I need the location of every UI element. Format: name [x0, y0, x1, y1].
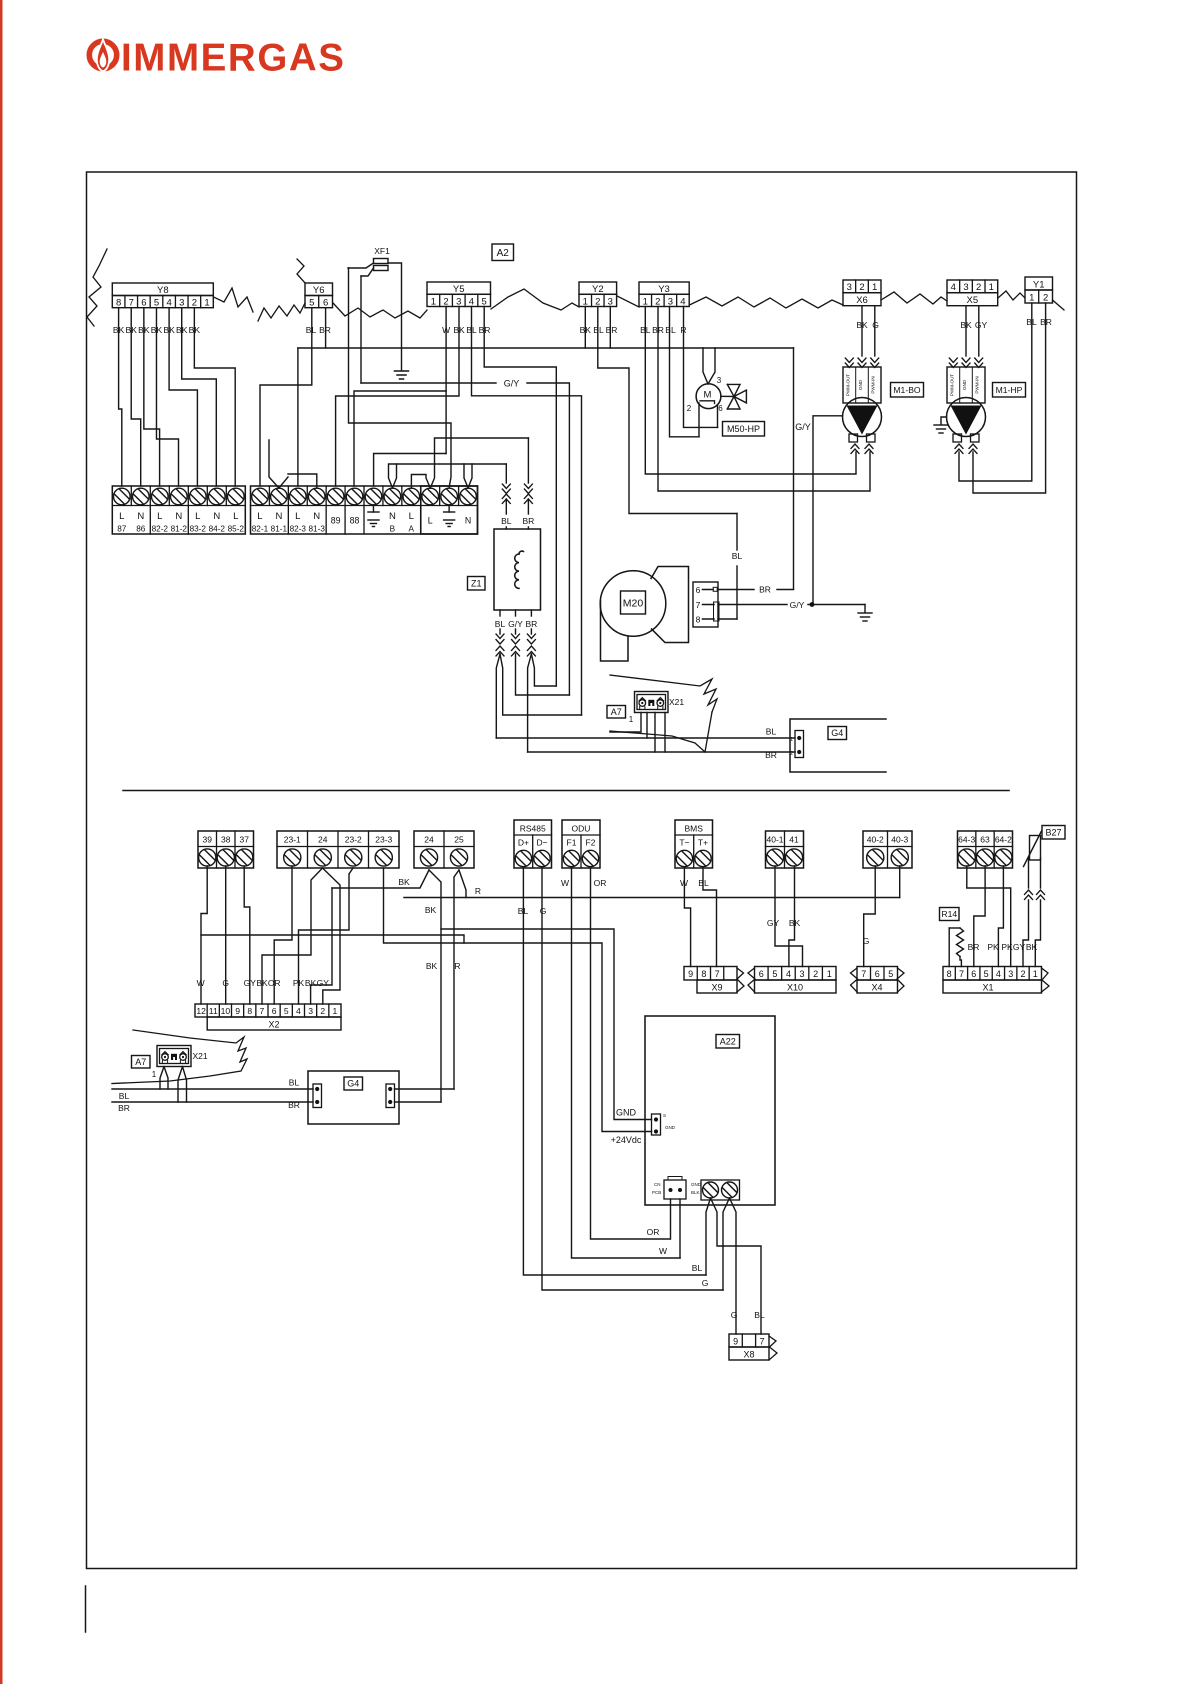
label A7 (bottom) [132, 1056, 151, 1069]
svg-text:A7: A7 [611, 707, 622, 717]
wire 40-3 R from long run [899, 866, 901, 898]
tear squiggle between Y5 and Y2 [491, 289, 579, 310]
svg-text:PWM-IN: PWM-IN [975, 376, 980, 393]
svg-text:L: L [428, 516, 433, 526]
svg-text:63: 63 [980, 835, 990, 845]
wire X5 pin2 to pump HP [978, 306, 980, 356]
wire to earth terminal [374, 454, 447, 487]
svg-text:3: 3 [963, 282, 968, 293]
svg-text:3: 3 [1008, 969, 1013, 979]
svg-text:6: 6 [971, 969, 976, 979]
svg-text:G/Y: G/Y [790, 600, 805, 610]
ground at pump M1-HP [941, 417, 947, 424]
svg-text:BR: BR [522, 516, 534, 526]
wire Y2 pin2 BL to fan row8 route [598, 307, 737, 514]
svg-text:OR: OR [647, 1227, 660, 1237]
svg-text:BR: BR [606, 325, 618, 335]
svg-text:IMMERGAS: IMMERGAS [121, 37, 346, 80]
A22 GND connector [652, 1114, 661, 1135]
svg-text:4: 4 [951, 282, 956, 293]
label M50-HP [723, 422, 765, 437]
terminal strip 39 38 37 [198, 831, 254, 868]
IMMERGAS logo [89, 37, 345, 80]
svg-text:BK: BK [305, 978, 317, 988]
wire RS485 D+ BL run [523, 868, 706, 1275]
svg-text:81-1: 81-1 [271, 525, 288, 534]
svg-text:24: 24 [424, 835, 434, 845]
wire Y5 pin4 BL right to bundle [472, 307, 582, 716]
svg-text:N: N [137, 511, 144, 522]
svg-text:BLK: BLK [691, 1190, 700, 1195]
svg-text:3: 3 [456, 296, 461, 307]
wire 24 GY to X2 pin2 [323, 868, 341, 1004]
wire A22 pin OR [670, 1199, 672, 1239]
svg-text:Y6: Y6 [313, 285, 325, 296]
svg-text:BL: BL [119, 1091, 130, 1101]
svg-text:X8: X8 [743, 1350, 754, 1360]
svg-text:BR: BR [288, 1100, 300, 1110]
pump M1-HP connector [947, 367, 985, 403]
svg-text:BL: BL [518, 906, 529, 916]
svg-text:64-3: 64-3 [958, 835, 975, 845]
wire 63 to X1 pin6 [974, 866, 985, 967]
svg-text:PK: PK [987, 942, 999, 952]
svg-text:X5: X5 [966, 295, 978, 306]
svg-text:2: 2 [790, 751, 793, 757]
wire 38 G to X2 pin10 [225, 866, 227, 1004]
svg-text:W: W [197, 978, 205, 988]
svg-text:BK: BK [398, 877, 410, 887]
terminal strip 40-2 40-3 [863, 831, 912, 868]
label M1-HP [993, 383, 1026, 398]
svg-text:BL: BL [692, 1263, 703, 1273]
wire pump M1-HP to Y1 pin2 [973, 303, 1046, 493]
label B27 [1042, 826, 1065, 840]
wire Y3 pin1 BL to pump M1-BO [645, 307, 856, 475]
svg-text:6: 6 [141, 298, 146, 309]
svg-text:89: 89 [331, 516, 341, 526]
svg-text:BK: BK [256, 978, 268, 988]
label A22 [716, 1035, 740, 1049]
svg-text:2: 2 [1021, 969, 1026, 979]
svg-text:4: 4 [996, 969, 1001, 979]
sensor B27 thermistor [1030, 836, 1041, 861]
svg-text:Y8: Y8 [157, 285, 169, 296]
wire XF1 to earth terminal GND2 [349, 268, 452, 487]
svg-text:GY: GY [975, 320, 988, 330]
svg-text:Y1: Y1 [1033, 279, 1045, 290]
wire A22 left screw branches [706, 1198, 711, 1275]
strip2 label group dividers [287, 506, 289, 535]
svg-text:PK: PK [293, 978, 305, 988]
connector X10 [755, 967, 837, 981]
svg-text:BL: BL [766, 727, 777, 737]
tear squiggles X4 edges [851, 968, 858, 992]
wire X5 pin3 to pump HP [965, 306, 967, 356]
svg-text:2: 2 [976, 282, 981, 293]
svg-text:2: 2 [320, 1006, 325, 1016]
svg-text:5: 5 [154, 298, 159, 309]
svg-text:B27: B27 [1045, 827, 1061, 837]
svg-text:PWM-OUT: PWM-OUT [949, 374, 954, 397]
svg-text:5: 5 [284, 1006, 289, 1016]
terminal strip RS485 [514, 820, 552, 868]
tear diag between Y2 and Y3 [617, 296, 639, 307]
fan connector 6 7 8 [693, 582, 718, 627]
wire ODU F1 W run [572, 868, 681, 1258]
connector X21 (bottom) [157, 1046, 191, 1067]
svg-text:39: 39 [203, 835, 213, 845]
cable joint arrows above Z1 left [502, 484, 510, 489]
svg-text:F1: F1 [567, 838, 577, 848]
pump M1-HP wire-end arrows [949, 358, 957, 363]
svg-text:G/Y: G/Y [504, 379, 520, 389]
wire fan pin7 G/Y to junction and ground [718, 604, 787, 606]
connector Y5 [427, 282, 491, 294]
svg-text:8: 8 [701, 969, 706, 979]
label M1-BO [891, 383, 924, 398]
svg-text:3: 3 [717, 376, 722, 385]
svg-text:1: 1 [790, 737, 793, 743]
3-way valve symbol [727, 384, 740, 396]
terminal strip ODU [562, 820, 600, 868]
long feed wire from W junction [201, 935, 464, 943]
controller G4 (bottom) [308, 1071, 399, 1124]
svg-text:R14: R14 [941, 909, 957, 919]
svg-text:23-3: 23-3 [375, 835, 392, 845]
svg-text:R: R [475, 886, 481, 896]
wire Y3 pin3 BL to valve pin2 [670, 307, 700, 437]
connector X21 (top) [635, 692, 669, 713]
svg-text:N: N [275, 511, 282, 522]
terminal strip 24 25 [414, 831, 474, 868]
A22 bottom small connector [664, 1180, 686, 1199]
svg-text:2: 2 [1043, 292, 1048, 303]
svg-text:L: L [409, 511, 414, 522]
connector Y2 [579, 282, 617, 294]
svg-text:M50-HP: M50-HP [727, 424, 760, 434]
tear squiggle right of X9 [737, 968, 744, 992]
svg-text:88: 88 [350, 516, 360, 526]
svg-text:OR: OR [268, 978, 281, 988]
wire fan pin6 BR to riser [713, 587, 717, 591]
drop wire into terminal N (last) [464, 464, 468, 488]
svg-text:5: 5 [984, 969, 989, 979]
label Z1 [468, 577, 486, 591]
X21 pin wires [610, 713, 641, 733]
tear diag right of Y1 [1053, 300, 1065, 310]
tear squiggle between Y3 and X6 [690, 297, 844, 308]
svg-text:BR: BR [765, 750, 777, 760]
G/Y wire from pump M1-BO case to junction [813, 416, 843, 605]
ground symbol under XF1 [395, 370, 409, 372]
svg-text:8: 8 [696, 615, 701, 625]
wire 39 W to X2 pin12 [201, 866, 207, 1004]
bridge wire L-A to L [411, 475, 430, 489]
svg-text:2: 2 [859, 282, 864, 293]
svg-text:82-2: 82-2 [152, 525, 169, 534]
wire Y6 pin5 BL to terminal 82-1 [260, 308, 312, 486]
svg-text:GND: GND [858, 379, 863, 390]
section separator line [123, 790, 1009, 792]
svg-text:40-2: 40-2 [867, 835, 884, 845]
svg-text:10: 10 [221, 1006, 231, 1016]
wire to terminal 82-3 from long horizontal [297, 348, 299, 486]
svg-text:L: L [233, 511, 238, 522]
svg-text:23-1: 23-1 [284, 835, 301, 845]
tear squiggle right of X8 [769, 1336, 777, 1360]
svg-text:Y2: Y2 [592, 284, 604, 295]
connector X2 [195, 1004, 341, 1017]
svg-text:1: 1 [1033, 969, 1038, 979]
svg-text:2: 2 [687, 404, 692, 413]
svg-text:OR: OR [594, 878, 607, 888]
wire 37 GY to X2 pin8 [244, 866, 250, 1004]
connector Y8 [112, 283, 213, 296]
svg-text:3: 3 [308, 1006, 313, 1016]
svg-text:2: 2 [443, 296, 448, 307]
terminal strip 40-1 41 [766, 831, 804, 868]
svg-text:G/Y: G/Y [508, 619, 523, 629]
connector X1 [943, 967, 1042, 981]
svg-text:G: G [731, 1310, 738, 1320]
svg-text:6: 6 [759, 969, 764, 979]
svg-text:PCB: PCB [652, 1190, 661, 1195]
svg-text:86: 86 [136, 525, 146, 534]
Z1 G/Y wire down to bundle [516, 654, 570, 695]
wire 24 BK to X2 pin7 [262, 868, 323, 1004]
pump M1-BO wire-end arrows [845, 358, 853, 363]
svg-text:4: 4 [166, 298, 171, 309]
svg-text:4: 4 [469, 296, 474, 307]
svg-text:F2: F2 [586, 838, 596, 848]
svg-text:BK: BK [425, 905, 437, 915]
svg-text:A: A [409, 525, 415, 534]
B27 wires with joint arrows [1028, 858, 1030, 888]
wire BR to G4 (top) [528, 751, 795, 753]
svg-text:T+: T+ [698, 838, 708, 848]
svg-text:Z1: Z1 [471, 578, 482, 588]
svg-text:BL: BL [501, 516, 512, 526]
svg-text:64-2: 64-2 [995, 835, 1012, 845]
connector X8 [729, 1334, 769, 1347]
svg-text:M20: M20 [623, 597, 644, 609]
svg-text:X4: X4 [871, 983, 882, 993]
svg-text:D−: D− [536, 838, 547, 848]
torn-page outline around X21 bottom [112, 1030, 247, 1084]
svg-text:1: 1 [827, 969, 832, 979]
svg-text:6: 6 [718, 404, 723, 413]
wire A22 pin W [679, 1199, 681, 1258]
svg-text:N: N [313, 511, 320, 522]
svg-text:X2: X2 [268, 1020, 279, 1030]
svg-text:1: 1 [431, 296, 436, 307]
svg-text:BMS: BMS [684, 824, 703, 834]
hook above Y6 [297, 259, 305, 283]
controller G4 (top) [790, 719, 886, 772]
wire BL to G4 bottom [112, 1088, 313, 1090]
pump M1-BO connector [843, 367, 881, 403]
svg-text:2: 2 [813, 969, 818, 979]
Z1 BL wire pair down [496, 654, 500, 738]
G/Y wire from XF1 to bundle [360, 276, 362, 383]
svg-text:GND: GND [665, 1125, 676, 1130]
resistor R14 [949, 927, 960, 929]
svg-text:BK: BK [426, 961, 438, 971]
svg-text:PWM-IN: PWM-IN [871, 376, 876, 393]
connector Y1 [1025, 277, 1053, 290]
svg-text:1: 1 [583, 296, 588, 307]
cable joint arrows above Z1 right [524, 484, 532, 489]
svg-text:N: N [213, 511, 220, 522]
wire h-feed into strip cell L to Z1 right arrow [430, 438, 528, 488]
svg-text:GY: GY [1013, 942, 1026, 952]
valve pin 2 wire [698, 403, 700, 437]
wire Y5 pin3 BK to terminal 89 [336, 307, 459, 487]
wire V into valve motor top [703, 348, 708, 384]
svg-text:BL: BL [665, 325, 676, 335]
ground symbol right of fan [864, 605, 866, 613]
tear squiggle before Y6 [258, 303, 305, 321]
svg-text:12: 12 [196, 1006, 206, 1016]
svg-text:L: L [195, 511, 200, 522]
svg-text:X10: X10 [787, 983, 803, 993]
svg-text:3: 3 [179, 298, 184, 309]
wire BL to G4 (top) [496, 737, 795, 739]
svg-text:1: 1 [989, 282, 994, 293]
connector X4 [857, 967, 898, 981]
svg-text:B: B [390, 525, 396, 534]
tear squiggle right of Y8 [214, 288, 254, 312]
svg-text:6: 6 [696, 585, 701, 595]
svg-text:4: 4 [786, 969, 791, 979]
svg-text:1: 1 [152, 1070, 157, 1079]
svg-text:BK: BK [1026, 942, 1038, 952]
wire h-feed into strip cell N B to Z1 left arrow [389, 464, 507, 488]
svg-text:5: 5 [888, 969, 893, 979]
terminal strip BMS [675, 820, 713, 868]
svg-text:GND: GND [962, 379, 967, 390]
wire fan pin8 BL riser [718, 618, 737, 620]
svg-text:8: 8 [247, 1006, 252, 1016]
svg-text:83-2: 83-2 [190, 525, 207, 534]
X21 bottom pin wires [160, 1067, 164, 1090]
wire Y3 pin2 BR to pump M1-BO [658, 307, 870, 492]
svg-text:7: 7 [959, 969, 964, 979]
svg-text:XF1: XF1 [374, 246, 390, 256]
pump M1-BO body [843, 398, 882, 437]
sub-box around last 3 terminal cells [421, 486, 478, 534]
G4 right wires to risers [395, 1088, 455, 1090]
svg-text:BL: BL [289, 1078, 300, 1088]
svg-text:M: M [704, 390, 712, 401]
svg-text:9: 9 [688, 969, 693, 979]
svg-text:G/Y: G/Y [795, 422, 811, 432]
svg-text:G: G [540, 906, 547, 916]
svg-text:6: 6 [875, 969, 880, 979]
svg-text:BR: BR [525, 619, 537, 629]
valve motor M50-HP [696, 384, 721, 409]
svg-text:82-1: 82-1 [252, 525, 269, 534]
svg-text:G4: G4 [831, 728, 843, 738]
wire 23-3 to +24Vdc run [384, 868, 652, 1132]
svg-text:RS485: RS485 [520, 824, 546, 834]
wire 64-3 to X1 [967, 866, 1011, 967]
svg-text:4: 4 [680, 296, 685, 307]
svg-text:2: 2 [655, 296, 660, 307]
inductor Z1 box [494, 529, 541, 610]
svg-text:7: 7 [260, 1006, 265, 1016]
wire Y2 pin3 BR to long run [609, 307, 611, 349]
svg-text:3: 3 [800, 969, 805, 979]
svg-text:A7: A7 [135, 1057, 146, 1067]
svg-text:+24Vdc: +24Vdc [611, 1135, 642, 1145]
svg-text:BL: BL [593, 325, 604, 335]
svg-text:BR: BR [118, 1103, 130, 1113]
svg-text:W: W [561, 878, 569, 888]
connector Y6 [305, 283, 333, 296]
svg-text:2: 2 [192, 298, 197, 309]
svg-text:X21: X21 [192, 1051, 207, 1061]
svg-text:4: 4 [296, 1006, 301, 1016]
svg-text:GY: GY [317, 978, 330, 988]
svg-text:T−: T− [679, 838, 689, 848]
wire A22 right screw branches [723, 1198, 730, 1290]
svg-text:N: N [175, 511, 182, 522]
svg-text:24: 24 [318, 835, 328, 845]
svg-text:5: 5 [309, 298, 314, 309]
svg-text:N: N [465, 516, 471, 526]
wire RS485 D- G run [542, 868, 723, 1290]
svg-text:L: L [295, 511, 300, 522]
svg-text:G: G [702, 1278, 709, 1288]
tear squiggle between Y6 and Y5 [333, 303, 427, 318]
svg-text:9: 9 [235, 1006, 240, 1016]
svg-text:X9: X9 [711, 983, 722, 993]
svg-text:6: 6 [323, 298, 328, 309]
wire Y3 pin4 R to valve pin6 [684, 307, 718, 428]
svg-text:1: 1 [643, 296, 648, 307]
svg-text:11: 11 [209, 1006, 218, 1016]
svg-text:37: 37 [240, 835, 250, 845]
wire into XF1 left [348, 263, 374, 268]
svg-text:GND: GND [691, 1182, 702, 1187]
svg-text:1: 1 [872, 282, 877, 293]
wire BR to G4 bottom [112, 1101, 313, 1103]
svg-text:1: 1 [629, 715, 634, 724]
A22 screw terminals [701, 1180, 740, 1200]
svg-text:87: 87 [117, 525, 127, 534]
svg-text:5: 5 [482, 296, 487, 307]
svg-text:GY: GY [767, 918, 780, 928]
tear squiggle right of X1 [1042, 968, 1050, 992]
svg-text:40-3: 40-3 [891, 835, 908, 845]
wire 23-2 PK to X2 pin4 [299, 868, 354, 1004]
svg-text:41: 41 [789, 835, 799, 845]
tear squiggle left of X10 [748, 968, 755, 992]
label M20 [621, 591, 646, 614]
wire ODU F2 OR run [591, 868, 671, 1239]
svg-text:GND: GND [616, 1108, 637, 1118]
connector X5 [947, 280, 998, 293]
svg-text:A2: A2 [497, 248, 510, 259]
svg-text:ODU: ODU [572, 824, 591, 834]
svg-text:3: 3 [668, 296, 673, 307]
terminal strip X: L87..L85-2 [112, 486, 245, 534]
svg-text:9: 9 [733, 1337, 738, 1347]
wire 23-1 OR to X2 pin6 [274, 866, 292, 1004]
svg-text:G: G [222, 978, 229, 988]
